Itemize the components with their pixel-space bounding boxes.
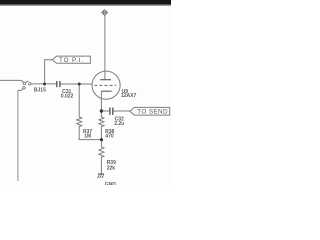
svg-text:1M: 1M [84,134,91,140]
svg-text:2.2u: 2.2u [114,121,124,127]
svg-text:TO SEND: TO SEND [137,109,168,116]
svg-text:BJ15: BJ15 [34,88,46,94]
svg-text:GND: GND [105,182,117,185]
svg-text:12AX7: 12AX7 [121,93,137,99]
svg-text:0.022: 0.022 [61,93,74,99]
svg-text:TO P.I.: TO P.I. [59,57,84,64]
svg-text:22k: 22k [107,165,116,171]
svg-text:470: 470 [105,133,114,139]
